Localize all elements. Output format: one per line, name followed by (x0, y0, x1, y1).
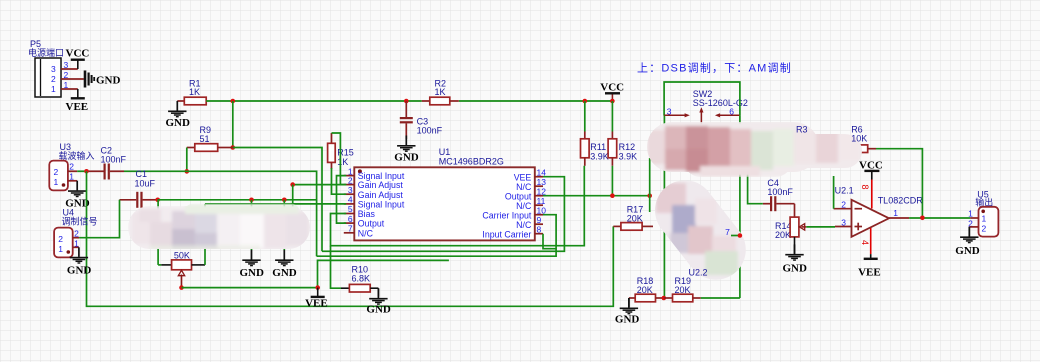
svg-text:2: 2 (982, 223, 987, 233)
svg-text:C1: C1 (136, 169, 148, 179)
svg-text:MC1496BDR2G: MC1496BDR2G (439, 157, 504, 167)
junction (181.5,287.6) (179, 285, 184, 290)
svg-text:GND: GND (366, 304, 391, 316)
junction (86.5,171.3) (84, 169, 89, 174)
wire R15 bottom to U1 pin3 (332, 168, 347, 194)
U1 left pin names (358, 171, 405, 238)
ground (U4 pin1) (67, 247, 92, 276)
junction (186.8,171.4) (185, 169, 190, 174)
wire R9 node to x322 drop (233, 148, 322, 252)
connector U4 (54, 208, 97, 258)
power flag VEE (P5 pin1) (66, 89, 89, 113)
svg-text:VEE: VEE (305, 298, 328, 310)
resistor R10 (341, 265, 378, 293)
wire R12 down to output net (611, 166, 613, 196)
wire knot h3 (C2 net to U1 pin10) (317, 215, 556, 257)
wire drop to mixer right ground (283, 200, 285, 250)
wire C2 to IC area (carrier net) (124, 171, 317, 256)
svg-text:1: 1 (54, 177, 59, 187)
wire U3 pin2 node (77, 170, 86, 172)
ground (R10) (366, 288, 391, 315)
svg-text:R3: R3 (796, 125, 808, 135)
svg-text:GND: GND (955, 245, 980, 257)
svg-text:Gain Adjust: Gain Adjust (358, 180, 404, 190)
wire C1 left to U4 pin2 (79, 200, 119, 238)
svg-text:1: 1 (58, 244, 63, 254)
svg-text:100nF: 100nF (767, 187, 793, 197)
U1 right pin numbers (537, 167, 547, 234)
svg-text:电源端口: 电源端口 (28, 47, 64, 58)
svg-text:1: 1 (968, 208, 973, 218)
junction (649.7,195.7) (647, 193, 652, 198)
svg-text:N/C: N/C (516, 220, 532, 230)
svg-text:Output: Output (358, 219, 385, 229)
svg-text:上：DSB调制，下：AM调制: 上：DSB调制，下：AM调制 (637, 62, 792, 75)
svg-text:8: 8 (537, 224, 542, 234)
svg-text:20K: 20K (775, 230, 791, 240)
resistor R2 (422, 79, 459, 105)
junction (284.3,199.8) (282, 198, 287, 203)
capacitor C1 (120, 169, 158, 208)
junction (584.8,101) (583, 99, 588, 104)
svg-text:7: 7 (348, 224, 353, 234)
capacitor C3 (400, 101, 443, 139)
svg-text:U2.2: U2.2 (689, 268, 708, 278)
blur patch (opamp U2.2) (650, 180, 755, 282)
resistor R6 labels (851, 125, 867, 144)
resistor R6 (840, 145, 876, 153)
wire drop to mixer left ground (251, 200, 253, 250)
power flag VCC (mid rail) (600, 82, 624, 102)
wire R15 top loop to U1 pin2 (332, 133, 347, 185)
junction (251.5,199.8) (249, 198, 254, 203)
svg-text:R12: R12 (619, 142, 636, 152)
ground (R18) (615, 298, 640, 326)
svg-text:Gain Adjust: Gain Adjust (358, 190, 404, 200)
resistor R17 (613, 205, 653, 231)
svg-text:4: 4 (860, 240, 870, 245)
svg-text:1: 1 (51, 84, 56, 94)
wire drop from pin2 junction into mixer area (292, 185, 294, 207)
power flag VEE (mid) (305, 288, 328, 310)
svg-text:50K: 50K (174, 251, 190, 261)
svg-text:2: 2 (69, 162, 74, 172)
svg-text:1K: 1K (337, 157, 348, 167)
resistor R12 (608, 101, 637, 166)
svg-text:VEE: VEE (858, 267, 881, 279)
connector U5 (968, 190, 998, 237)
svg-text:N/C: N/C (358, 228, 374, 238)
resistor R11 (581, 101, 609, 166)
wire R19 right to SW2 pin6 drop (701, 297, 740, 299)
svg-text:10uF: 10uF (135, 179, 156, 189)
svg-text:3.9K: 3.9K (619, 152, 638, 162)
svg-text:2: 2 (51, 74, 56, 84)
wire knot h2 (x322 to U1 pin14) (322, 177, 564, 252)
svg-text:输出: 输出 (975, 197, 993, 208)
svg-text:U2.1: U2.1 (835, 186, 854, 196)
svg-text:3.9K: 3.9K (590, 152, 609, 162)
svg-text:R11: R11 (590, 142, 606, 152)
wire knot h4 (VEE stub under IC) (318, 260, 449, 287)
junction (663.8,298) (662, 296, 667, 301)
ground (mixer left) (240, 250, 265, 279)
ground (U3 pin1) (65, 181, 90, 210)
svg-text:Signal Input: Signal Input (358, 200, 405, 210)
junction (317.7,287.6) (315, 285, 320, 290)
U2.2 pin7 wire (725, 227, 740, 237)
wire 50K right arm up to U1 pin4 (204, 204, 206, 265)
svg-text:VEE: VEE (514, 172, 532, 182)
wire U1 pin4 left run (205, 203, 346, 205)
svg-text:2: 2 (58, 234, 63, 244)
svg-text:4: 4 (348, 195, 353, 205)
resistor R1 (177, 79, 206, 105)
wire SW2 pin3 drop through AM branch (663, 116, 665, 298)
svg-text:1: 1 (893, 208, 898, 218)
U2.1 pin8 VCC (859, 160, 883, 209)
svg-text:GND: GND (394, 152, 419, 164)
svg-text:9: 9 (537, 215, 542, 225)
ground (P5 pin2, sideways) (85, 71, 121, 88)
svg-text:51: 51 (200, 134, 210, 144)
svg-text:GND: GND (615, 314, 640, 326)
wire C4 left from R3 area (748, 172, 763, 204)
svg-text:2: 2 (348, 175, 353, 185)
junction (612.4,195.7) (610, 193, 615, 198)
svg-text:1K: 1K (435, 87, 446, 97)
svg-text:100nF: 100nF (101, 155, 127, 165)
wire R10 left from bias net (331, 246, 342, 289)
svg-text:U1: U1 (439, 147, 451, 157)
switch SW2 SS-1260L-G2 (664, 82, 748, 125)
wire U2.1 output to U5 (909, 217, 970, 219)
junction (739.9,235.5) (738, 233, 743, 238)
svg-text:6.8K: 6.8K (352, 274, 371, 284)
svg-text:GND: GND (240, 267, 265, 279)
junction (233,147.5) (231, 145, 236, 150)
blur patch (R3/R4 area) (647, 121, 865, 177)
svg-text:GND: GND (272, 267, 297, 279)
wire 50K wiper to VEE node (182, 287, 318, 289)
svg-text:N/C: N/C (516, 201, 532, 211)
wire U1 pin12 output run (543, 195, 650, 197)
svg-text:13: 13 (537, 177, 547, 187)
svg-text:6: 6 (348, 214, 353, 224)
junction (157.7,199.8) (155, 198, 160, 203)
svg-text:VEE: VEE (66, 101, 89, 113)
svg-text:11: 11 (537, 196, 546, 206)
wire output node up into R3 area (649, 158, 651, 196)
connector U3 (49, 142, 94, 190)
junction (406.3,101) (404, 99, 409, 104)
svg-text:1K: 1K (189, 87, 200, 97)
IC U1 MC1496BDR2G (354, 147, 535, 240)
svg-text:VCC: VCC (66, 48, 90, 60)
wire R1 node down to R9 (232, 101, 234, 148)
wire U1 pin2 left run (293, 184, 347, 186)
wire VEE left drop x86.5 (87, 171, 614, 306)
ground (R1 left) (166, 101, 191, 129)
junction (292.7,184.6) (290, 182, 295, 187)
wire U1 pin5 bias loop h1 to R11 (331, 166, 585, 246)
svg-text:载波输入: 载波输入 (59, 150, 95, 161)
wire R9 left down to C2 net (186, 148, 188, 172)
resistor R18 (629, 276, 664, 302)
capacitor C2 (89, 146, 127, 180)
wire main top rail y=101 (206, 100, 612, 102)
U1 right pin names (482, 172, 532, 239)
wire drop to 50K left arm (157, 200, 159, 265)
svg-text:3: 3 (51, 64, 56, 74)
wire C1 right node (158, 199, 317, 201)
U1 right pin stubs 14-8 (535, 177, 543, 234)
svg-text:VCC: VCC (600, 82, 624, 94)
opamp U2.1 TL082CDR (834, 186, 924, 237)
svg-text:N/C: N/C (516, 182, 532, 192)
svg-text:Input Carrier: Input Carrier (482, 229, 531, 239)
wire R14 wiper to U2.1 pin3 (806, 226, 835, 228)
wire 50K left arm (158, 264, 161, 266)
ground (C3) (394, 136, 419, 164)
U1 left pin stubs 1-7 (344, 176, 355, 233)
wire U2.1 pin2 up into R3 area (833, 176, 835, 209)
svg-text:GND: GND (67, 265, 92, 277)
junction (233,101) (231, 99, 236, 104)
ground (mixer right) (272, 250, 297, 279)
svg-text:GND: GND (96, 75, 121, 87)
potentiometer R14 (775, 204, 806, 240)
wire SW2 pin6 drop (739, 116, 741, 298)
svg-text:7: 7 (725, 227, 730, 237)
svg-text:8: 8 (860, 185, 870, 190)
potentiometer 50K (161, 251, 205, 288)
wire U1 pin8 drop (543, 234, 556, 249)
U1 left pin numbers (348, 166, 353, 233)
resistor R19 (664, 276, 701, 302)
svg-text:GND: GND (783, 263, 808, 275)
svg-text:Carrier Input: Carrier Input (482, 210, 531, 220)
svg-text:TL082CDR: TL082CDR (878, 196, 924, 206)
connector P5 (28, 39, 84, 97)
resistor R9 (187, 125, 233, 151)
capacitor C4 (763, 178, 795, 211)
ground (U5 pin2) (955, 227, 980, 257)
svg-text:GND: GND (166, 117, 191, 129)
wire R6 right loop down to output (876, 149, 922, 218)
blur patch (mixer components) (128, 204, 318, 252)
junction (922.4,217.8) (920, 216, 925, 221)
ground (R14) (783, 237, 808, 275)
power flag VCC (P5 pin3) (66, 48, 90, 70)
U2.1 pin4 VEE (858, 228, 881, 279)
svg-text:调制信号: 调制信号 (62, 216, 98, 227)
svg-text:3: 3 (348, 185, 353, 195)
svg-text:Bias: Bias (358, 209, 376, 219)
svg-text:10K: 10K (851, 134, 867, 144)
junction (612.4,101) (610, 99, 615, 104)
wire U1 pin1 to pin6 loop (337, 176, 347, 224)
svg-text:Output: Output (505, 191, 532, 201)
wire output node down into U2.2 area (649, 196, 651, 212)
svg-text:5: 5 (348, 204, 353, 214)
svg-text:2: 2 (54, 167, 59, 177)
svg-text:1: 1 (982, 213, 987, 223)
resistor R15 (328, 133, 354, 169)
svg-text:100nF: 100nF (417, 126, 443, 136)
